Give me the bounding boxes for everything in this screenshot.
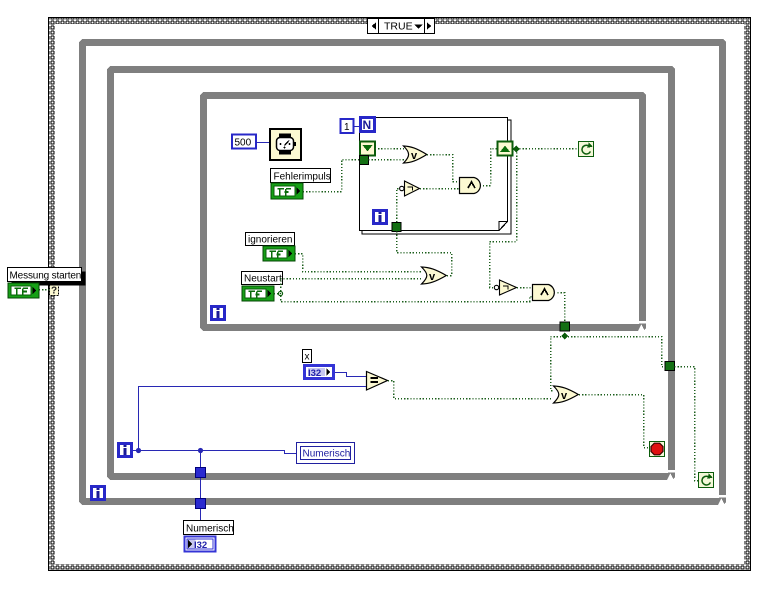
- wire Neustart to junction J1: [274, 293, 278, 295]
- OR gate 2: [422, 267, 447, 284]
- wire OR3 to stop terminal: [579, 395, 649, 448]
- svg-text:Numerisch: Numerisch: [186, 524, 234, 535]
- ignorieren label: [246, 233, 295, 246]
- i terminal (middle loop): [119, 444, 132, 457]
- NOT gate 1 (in for loop): [400, 181, 420, 196]
- tunnel middle-loop right (boolean): [665, 362, 675, 371]
- for loop frame: back page: [360, 118, 512, 235]
- wire OR2 to for-loop bottom tunnel: [397, 231, 452, 276]
- wire D1 down to NOT2: [490, 153, 517, 288]
- svg-text:Numerisch: Numerisch: [303, 449, 351, 460]
- N count terminal: [361, 118, 375, 133]
- 500 constant: [232, 135, 256, 149]
- svg-text:I32: I32: [194, 540, 207, 551]
- junction diamond D2: [561, 333, 568, 340]
- Neustart label: [242, 272, 283, 285]
- wire tunnel to OR1 bottom: [369, 159, 405, 161]
- for loop frame: front page with folded corner: [360, 118, 508, 231]
- middle loop condition terminal (stop if true): [650, 442, 665, 457]
- Fehlerimpuls TF terminal: [271, 183, 303, 199]
- loop corner rounding overlays: [79, 39, 726, 505]
- tunnel inner-loop bottom (boolean): [560, 322, 570, 331]
- shift register right (up arrow): [498, 142, 513, 156]
- middle while loop border: [107, 66, 675, 480]
- svg-text:TRUE: TRUE: [384, 21, 413, 33]
- inner loop condition terminal (continue if true): [579, 142, 594, 157]
- Messung starten label: [8, 268, 86, 286]
- tunnel for-loop left (boolean): [360, 156, 369, 165]
- Neustart TF terminal: [242, 286, 274, 301]
- i terminal (outer loop): [92, 487, 105, 500]
- wire NOT1 to AND1: [420, 188, 459, 190]
- wire i to junction1 and onward: [133, 451, 296, 454]
- constant 1: [341, 119, 354, 133]
- Fehlerimpuls label: [271, 169, 331, 183]
- Messung starten TF terminal: [8, 283, 39, 298]
- svg-text:Neustart: Neustart: [244, 274, 282, 285]
- I32 control x: [305, 366, 334, 380]
- outer while loop border: [79, 39, 726, 505]
- tunnel middle-loop bottom (blue): [196, 468, 206, 478]
- wire 500 to wait: [256, 142, 269, 144]
- wire D2 right to middle-loop tunnel: [568, 337, 665, 367]
- outer loop condition terminal (continue if true): [699, 473, 714, 488]
- wire: Messung starten to case tunnel: [39, 289, 50, 291]
- svg-text:Messung starten: Messung starten: [10, 271, 82, 282]
- OR gate 1 (in for loop): [404, 146, 427, 163]
- wire J1 up to OR2 bottom: [281, 279, 422, 292]
- wire 1 to N: [354, 126, 360, 128]
- svg-text:x: x: [305, 352, 310, 363]
- wire OR1 to AND1: [427, 155, 460, 182]
- svg-text:v: v: [411, 150, 418, 162]
- wire D1 to inner continue terminal: [520, 148, 579, 150]
- tunnel for-loop bottom (boolean): [392, 223, 401, 232]
- junction J1: [278, 291, 282, 295]
- case tunnel ?: [50, 284, 59, 297]
- junction dot blue 2: [198, 448, 203, 453]
- svg-text:N: N: [363, 118, 372, 132]
- svg-text:?: ?: [51, 286, 57, 297]
- svg-text:v: v: [429, 271, 436, 283]
- inner while loop border: [200, 92, 646, 331]
- wire Fehlerimpuls to for-loop tunnel: [303, 160, 360, 192]
- x label: [303, 350, 312, 363]
- wire J1 down to AND2 bottom: [281, 296, 533, 302]
- svg-text:1: 1: [344, 122, 350, 133]
- ignorieren TF terminal: [263, 246, 295, 261]
- svg-text:I32: I32: [308, 368, 321, 379]
- junction diamond D1: [513, 146, 520, 153]
- wait ms (watch) icon: [270, 129, 301, 160]
- inner while loop corner notch: [630, 321, 646, 331]
- wire AND2 to inner-loop bottom tunnel: [558, 293, 565, 323]
- shift register left (down arrow): [360, 142, 375, 156]
- outer while loop corner notch: [710, 495, 726, 505]
- wire NOT2 to AND2 top: [517, 287, 532, 289]
- wire junction2 down through tunnels: [200, 451, 202, 523]
- OR gate 3: [554, 386, 579, 403]
- svg-text:500: 500: [235, 138, 252, 149]
- svg-text:v: v: [561, 390, 568, 402]
- wire junction1 up to equals bottom: [139, 387, 367, 451]
- Numerisch I32 indicator (bottom): [185, 537, 216, 552]
- Numerisch indicator (right): [297, 443, 355, 464]
- junction dot blue 1: [136, 448, 141, 453]
- equals comparator: [367, 372, 388, 391]
- fold crease: [499, 222, 508, 231]
- AND gate 1 (in for loop): [460, 178, 481, 194]
- case selector label TRUE: [368, 19, 435, 34]
- wire D2 left-down to OR3 top: [551, 337, 562, 391]
- wire ignorieren to OR2 top: [295, 254, 421, 272]
- wire AND1 to SR-right: [483, 149, 497, 186]
- wire I32x to equals: [335, 373, 366, 377]
- AND gate 2: [533, 285, 555, 301]
- i terminal (inner loop): [212, 307, 225, 320]
- wire tunnel to outer continue terminal: [675, 367, 699, 481]
- middle while loop corner notch: [659, 470, 675, 480]
- Numerisch label (bottom): [184, 521, 234, 535]
- i terminal (for loop): [374, 211, 387, 224]
- wire equals out to OR3 bottom: [388, 381, 553, 399]
- tunnel outer-loop bottom (blue): [196, 499, 206, 509]
- svg-text:Fehlerimpuls: Fehlerimpuls: [274, 172, 331, 183]
- svg-text:ignorieren: ignorieren: [248, 235, 292, 246]
- wire SR-left to OR1 top: [375, 148, 404, 150]
- NOT gate 2: [494, 280, 516, 295]
- wire for-loop bottom tunnel to NOT1: [397, 189, 400, 223]
